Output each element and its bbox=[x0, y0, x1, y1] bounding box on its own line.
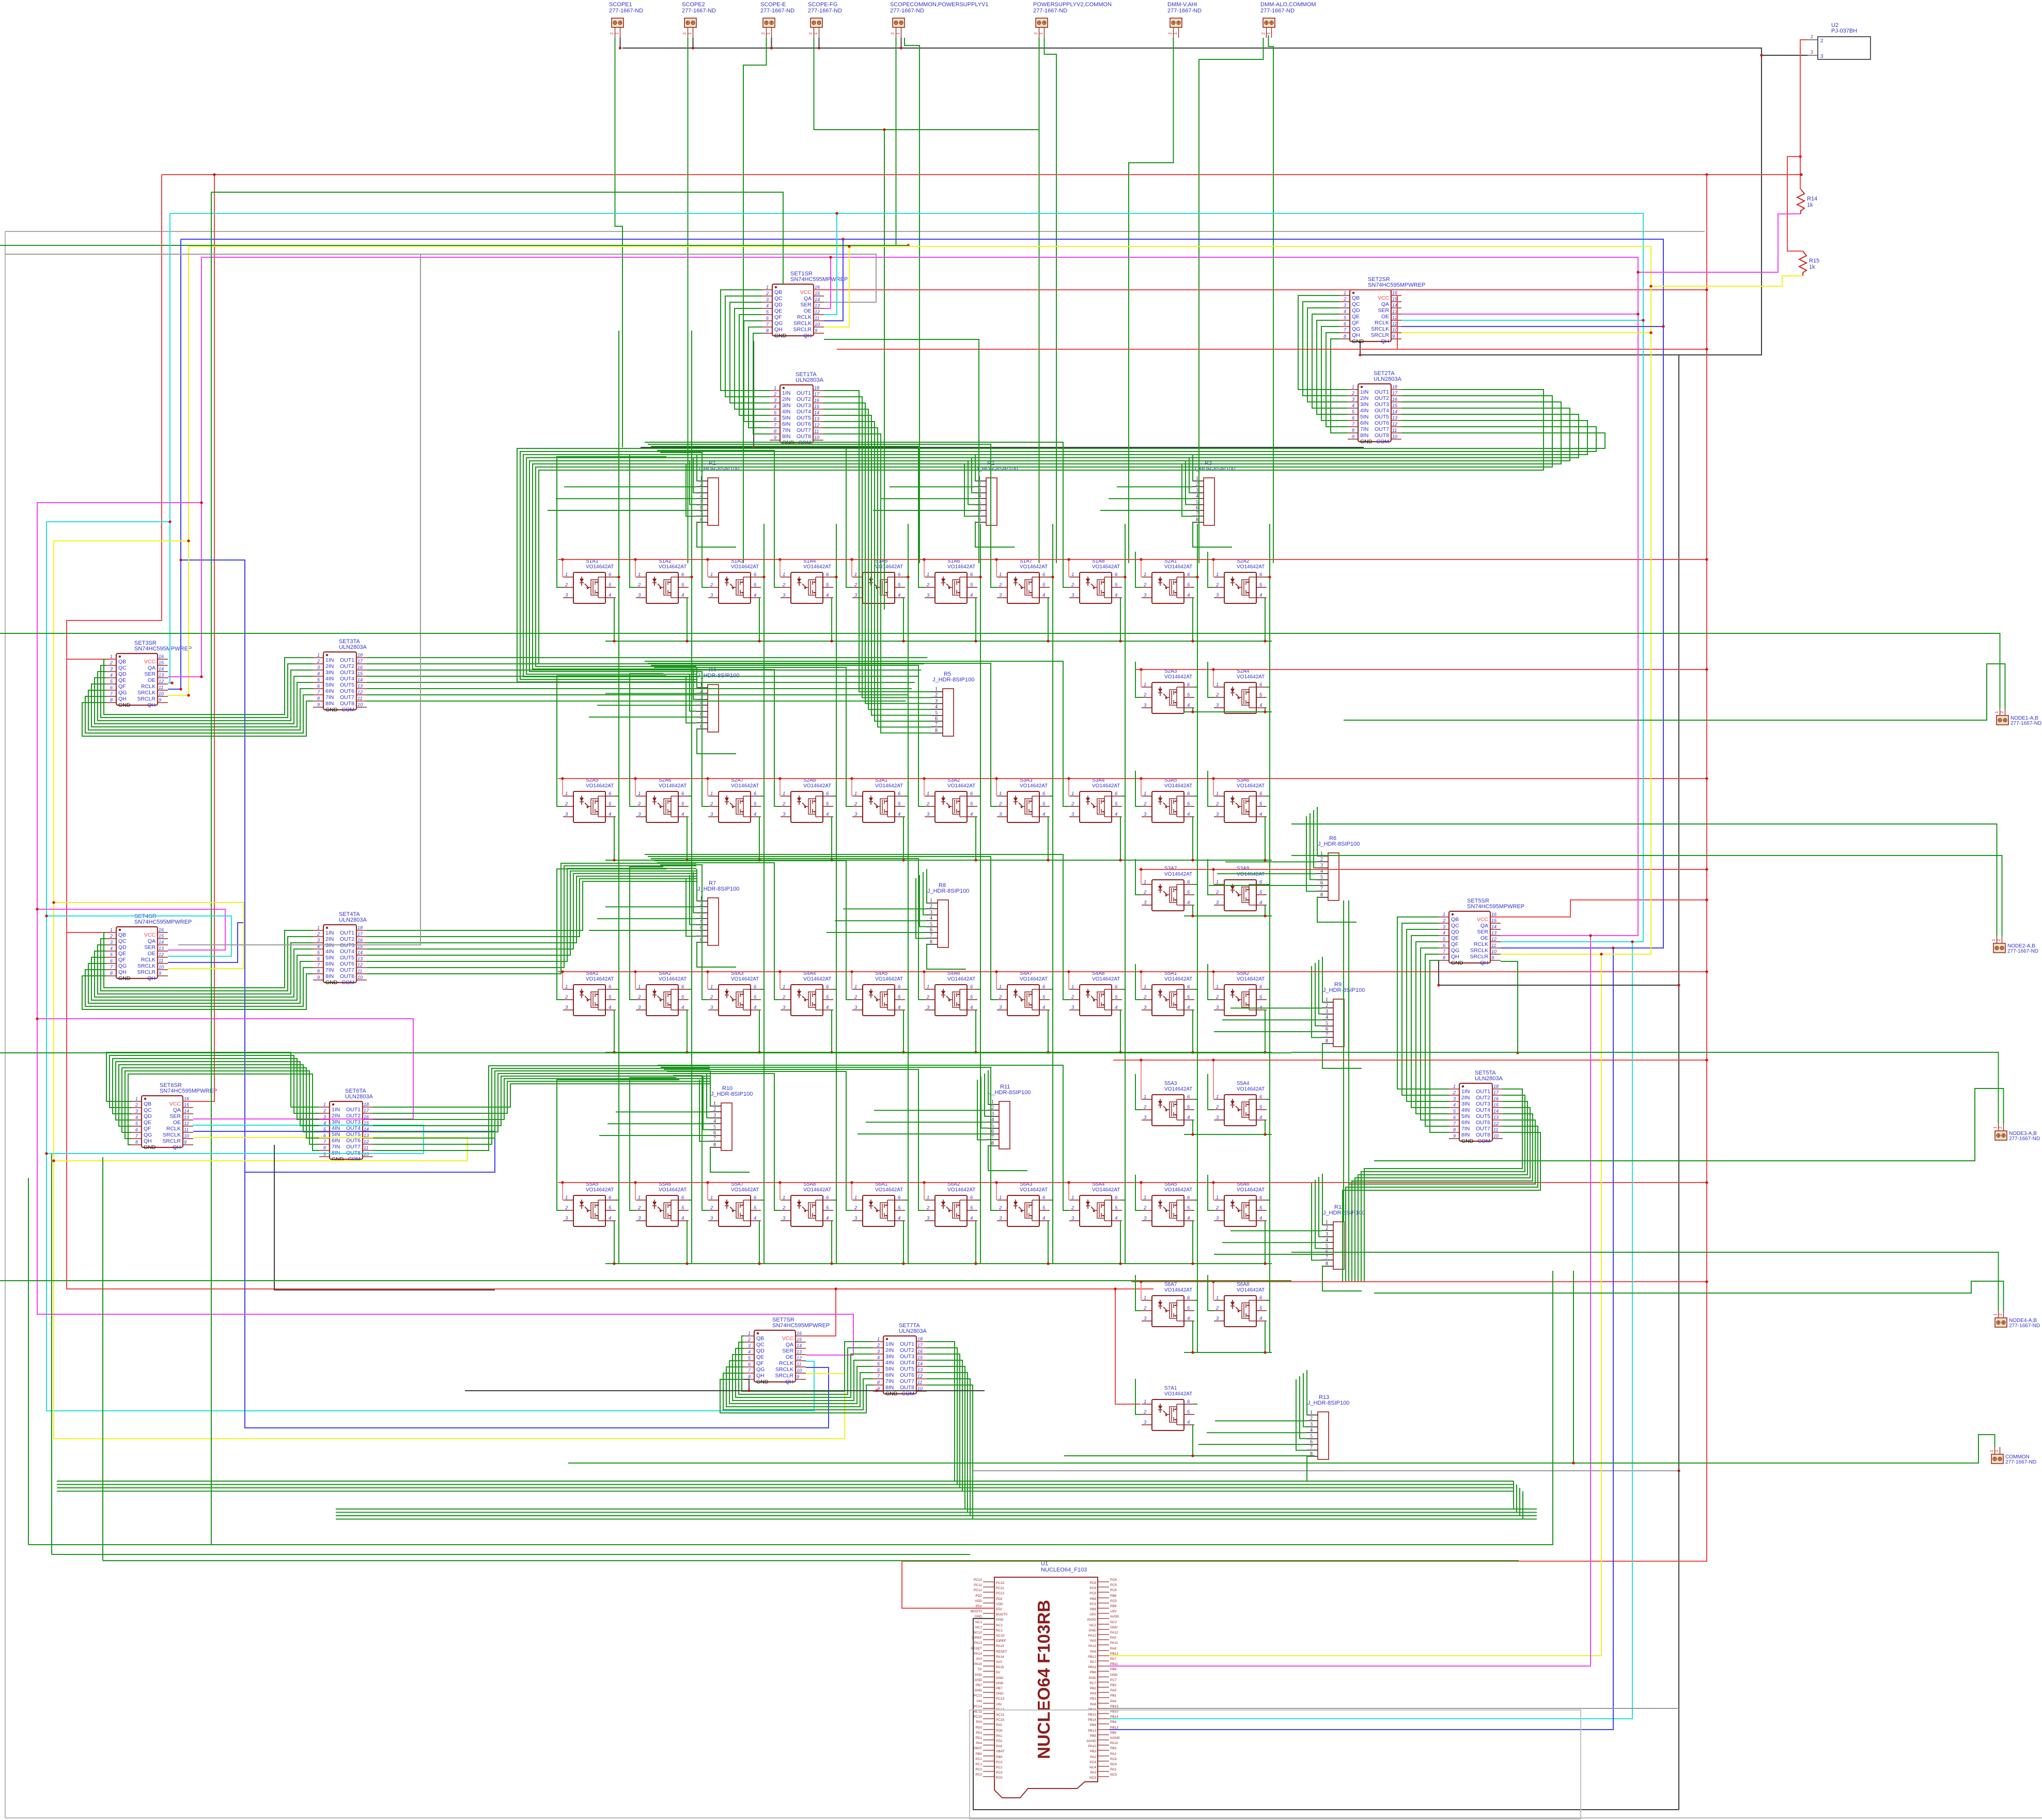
svg-text:AGND: AGND bbox=[1110, 1736, 1120, 1740]
svg-text:16: 16 bbox=[917, 1349, 923, 1354]
svg-text:6: 6 bbox=[754, 572, 757, 578]
wire S1A2 pin1 to VCC bus bbox=[635, 559, 636, 577]
wire SET6SR VCC loop bbox=[183, 175, 214, 1101]
svg-text:QA: QA bbox=[804, 295, 812, 302]
svg-text:6: 6 bbox=[898, 984, 901, 990]
svg-text:11: 11 bbox=[797, 1362, 801, 1367]
svg-text:5: 5 bbox=[1115, 582, 1118, 588]
wire R10 wires pin2 bbox=[616, 1111, 710, 1112]
svg-text:6: 6 bbox=[135, 1127, 138, 1132]
wire R1 wires pin4 bbox=[556, 498, 696, 499]
svg-text:1: 1 bbox=[710, 984, 713, 990]
svg-text:5: 5 bbox=[991, 1123, 994, 1129]
svg-text:2: 2 bbox=[1196, 481, 1198, 487]
svg-text:PB3: PB3 bbox=[1110, 1747, 1117, 1750]
wire VCC row bus y1083 bbox=[558, 559, 1707, 560]
svg-text:VO14642AT: VO14642AT bbox=[1164, 1391, 1192, 1397]
svg-text:GND: GND bbox=[756, 1379, 769, 1385]
svg-text:VO14642AT: VO14642AT bbox=[947, 783, 975, 789]
svg-text:18: 18 bbox=[357, 652, 363, 658]
svg-text:2: 2 bbox=[710, 1205, 713, 1211]
svg-text:1: 1 bbox=[1216, 572, 1219, 578]
wire SRCLR left bus yellow bbox=[54, 541, 845, 1439]
svg-text:NC10: NC10 bbox=[996, 1634, 1005, 1638]
svg-text:17: 17 bbox=[1493, 1090, 1499, 1095]
svg-text:1: 1 bbox=[783, 984, 785, 990]
svg-text:6: 6 bbox=[1187, 984, 1190, 990]
svg-text:GND: GND bbox=[1461, 1138, 1474, 1144]
junction SRCLR bbox=[1600, 953, 1602, 955]
svg-text:15: 15 bbox=[797, 1337, 802, 1342]
wire R10 wires pin7 bbox=[699, 1080, 710, 1141]
svg-text:2: 2 bbox=[637, 801, 641, 807]
wire bus lower2 line4 bbox=[336, 1519, 1537, 1520]
wire S4A7 pin1 to VCC bus bbox=[996, 972, 997, 989]
svg-text:1IN: 1IN bbox=[885, 1341, 894, 1347]
svg-text:QH: QH bbox=[173, 1144, 181, 1150]
wire R3 wires pin3 bbox=[1189, 458, 1192, 493]
wire R3 wires pin6 bbox=[1100, 510, 1192, 511]
svg-text:6: 6 bbox=[1187, 682, 1190, 688]
svg-text:3: 3 bbox=[783, 593, 786, 598]
wire R9 wires pin4 bbox=[1222, 1019, 1322, 1020]
wire SET4SR to SET4TA bit 6 bbox=[88, 961, 313, 1003]
svg-text:1: 1 bbox=[991, 1099, 994, 1105]
solid-state relay S1A7 bbox=[997, 558, 1050, 603]
svg-text:2: 2 bbox=[637, 1205, 641, 1211]
svg-text:3: 3 bbox=[1071, 1216, 1074, 1221]
svg-text:OUT5: OUT5 bbox=[340, 682, 354, 688]
svg-text:VO14642AT: VO14642AT bbox=[803, 564, 831, 570]
svg-text:2: 2 bbox=[935, 692, 938, 698]
svg-text:1: 1 bbox=[927, 1195, 929, 1201]
solid-state relay S3A7 bbox=[1142, 866, 1194, 911]
svg-text:4: 4 bbox=[826, 1216, 829, 1221]
svg-text:VDD: VDD bbox=[975, 1599, 982, 1603]
svg-text:8: 8 bbox=[1326, 1038, 1328, 1044]
svg-text:3: 3 bbox=[710, 812, 713, 817]
svg-text:PB10: PB10 bbox=[1088, 1713, 1096, 1717]
wire S4A1 pin1 to VCC bus bbox=[562, 972, 563, 989]
svg-text:NC11: NC11 bbox=[996, 1713, 1005, 1717]
resistor network R7 bbox=[696, 880, 739, 945]
svg-text:PB8: PB8 bbox=[1110, 1594, 1117, 1598]
svg-text:5: 5 bbox=[1259, 582, 1262, 588]
wire SET4TA out2 bbox=[367, 879, 696, 937]
wire SET5TA out1 bbox=[1364, 1089, 1522, 1281]
svg-text:PB0: PB0 bbox=[996, 1755, 1003, 1759]
solid-state relay S5A4 bbox=[1214, 1081, 1267, 1126]
wire S5A5 pin2 drive bbox=[557, 1080, 679, 1210]
wire SET3SR VCC stub bbox=[67, 659, 116, 660]
wire S7A1 pin6 stub bbox=[1194, 1404, 1197, 1405]
svg-text:2: 2 bbox=[713, 1107, 716, 1112]
svg-text:5: 5 bbox=[1187, 994, 1190, 1000]
svg-text:SER: SER bbox=[1477, 929, 1488, 935]
svg-text:PB4: PB4 bbox=[1090, 1723, 1097, 1727]
svg-text:6: 6 bbox=[970, 572, 973, 578]
wire S3A7 pin4 to return bus bbox=[1192, 905, 1193, 916]
wire S3A2 pin6 stub bbox=[977, 796, 980, 797]
svg-text:OUT7: OUT7 bbox=[346, 1144, 361, 1150]
svg-text:5: 5 bbox=[754, 801, 757, 807]
svg-text:11: 11 bbox=[159, 958, 163, 963]
svg-text:VCC: VCC bbox=[1378, 295, 1390, 301]
svg-text:S6A8: S6A8 bbox=[1237, 1282, 1250, 1287]
svg-text:15: 15 bbox=[1491, 918, 1497, 923]
wire SET4TA out5 bbox=[367, 871, 696, 955]
svg-text:2IN: 2IN bbox=[782, 396, 790, 402]
svg-text:6: 6 bbox=[317, 683, 320, 689]
wire return bus y1773 bbox=[1184, 915, 1272, 916]
svg-text:OUT8: OUT8 bbox=[900, 1385, 914, 1391]
svg-text:1: 1 bbox=[1144, 1094, 1146, 1100]
svg-text:PA9: PA9 bbox=[1090, 1692, 1096, 1695]
terminal block DMM-ALO,COMMOM bbox=[1260, 2, 1316, 38]
svg-text:17: 17 bbox=[357, 931, 363, 937]
wire SET7TA out4 bbox=[927, 1360, 962, 1491]
svg-text:2: 2 bbox=[610, 32, 614, 35]
svg-text:2: 2 bbox=[135, 1102, 138, 1108]
terminal block COMMON bbox=[1989, 1447, 2036, 1465]
wire SET5SR to SET5TA bit 2 bbox=[1402, 923, 1449, 1095]
wire S2A2 pin2 drive bbox=[1208, 552, 1214, 587]
svg-text:6: 6 bbox=[1042, 572, 1046, 578]
wire SRCLK net loop blue lower bbox=[1109, 948, 1613, 1730]
svg-text:1: 1 bbox=[766, 32, 771, 35]
svg-text:3IN: 3IN bbox=[325, 670, 334, 676]
svg-text:PD1: PD1 bbox=[996, 1739, 1003, 1743]
svg-text:3: 3 bbox=[999, 1216, 1002, 1221]
svg-text:5: 5 bbox=[970, 1205, 973, 1211]
svg-text:5: 5 bbox=[609, 801, 612, 807]
svg-text:4: 4 bbox=[774, 404, 776, 409]
wire S1A1 pin6 stub bbox=[616, 577, 619, 578]
svg-text:8: 8 bbox=[135, 1140, 138, 1145]
svg-text:10: 10 bbox=[797, 1368, 802, 1373]
svg-text:1: 1 bbox=[1144, 879, 1146, 885]
wire R8 wires pin2 bbox=[843, 908, 926, 909]
svg-text:SCOPE1: SCOPE1 bbox=[609, 2, 632, 8]
wire VCC row bus y2052 bbox=[1113, 1060, 1707, 1061]
svg-text:14: 14 bbox=[797, 1343, 802, 1348]
svg-text:PD2: PD2 bbox=[996, 1597, 1003, 1601]
svg-text:11: 11 bbox=[364, 1145, 368, 1150]
svg-text:6: 6 bbox=[681, 572, 684, 578]
svg-text:SN74HC595MPWREP: SN74HC595MPWREP bbox=[1368, 282, 1425, 288]
svg-text:2: 2 bbox=[1143, 994, 1147, 1000]
wire SET2TA out5 bbox=[526, 414, 1579, 674]
wire SCOPE1 pin2 down bbox=[615, 38, 623, 447]
wire R14 bottom to OE net bbox=[1638, 214, 1801, 272]
svg-text:2: 2 bbox=[1071, 801, 1074, 807]
wire R10 wires pin8 bbox=[710, 1147, 750, 1172]
svg-text:PC7: PC7 bbox=[1089, 1682, 1096, 1685]
svg-text:OUT6: OUT6 bbox=[346, 1138, 361, 1144]
shift register SET3SR bbox=[106, 640, 192, 708]
svg-text:NC2: NC2 bbox=[1110, 1621, 1117, 1624]
wire R9 wires pin2 bbox=[1230, 1007, 1322, 1008]
svg-text:6: 6 bbox=[1259, 682, 1262, 688]
svg-text:9: 9 bbox=[1352, 434, 1354, 439]
wire S4A7 pin6 stub bbox=[1050, 989, 1053, 990]
wire R7 wires pin4 bbox=[597, 918, 696, 919]
wire GND vertical right bbox=[1678, 1471, 1679, 1810]
wire R1 wires pin3 bbox=[693, 458, 696, 493]
wire SET1SR to SET1TA bit 8 bbox=[753, 333, 770, 434]
wire S2A7 pin4 to return bus bbox=[759, 817, 760, 860]
wire R7 wires pin6 bbox=[589, 930, 696, 931]
svg-text:1: 1 bbox=[317, 925, 320, 930]
svg-text:OUT4: OUT4 bbox=[1375, 408, 1389, 414]
solid-state relay S1A3 bbox=[708, 558, 761, 603]
svg-text:5: 5 bbox=[609, 582, 612, 588]
wire SCOPE-E pin1 to GND bus bbox=[771, 38, 772, 48]
svg-text:PB13: PB13 bbox=[1110, 1726, 1118, 1730]
svg-text:6: 6 bbox=[1326, 1026, 1328, 1032]
svg-text:1: 1 bbox=[710, 1195, 713, 1201]
svg-text:QD: QD bbox=[1451, 929, 1459, 935]
gray net wire y448 bbox=[5, 231, 1705, 232]
wire S6A8 pin2 drive bbox=[1208, 1275, 1214, 1311]
wire S2A6 pin4 to return bus bbox=[687, 817, 688, 860]
svg-text:6: 6 bbox=[1187, 879, 1190, 885]
svg-text:E5V: E5V bbox=[976, 1605, 983, 1608]
wire SET1SR GND down bbox=[753, 341, 754, 447]
wire left green x55 bbox=[28, 1178, 29, 1545]
svg-text:1: 1 bbox=[877, 1336, 880, 1342]
svg-text:PA12: PA12 bbox=[1088, 1634, 1097, 1638]
wire S2A1 pin6 stub bbox=[1194, 577, 1197, 578]
wire S4A1 pin6 stub bbox=[616, 989, 619, 990]
wire U1 PB15 gray bbox=[1109, 1708, 1679, 1709]
svg-text:2: 2 bbox=[1215, 801, 1219, 807]
svg-text:2: 2 bbox=[761, 32, 766, 35]
svg-text:PC11: PC11 bbox=[996, 1586, 1004, 1590]
wire S4A3 pin2 drive bbox=[660, 865, 708, 1000]
svg-text:12: 12 bbox=[797, 1356, 802, 1361]
svg-text:1IN: 1IN bbox=[325, 657, 334, 663]
svg-text:5: 5 bbox=[1344, 315, 1347, 320]
wire S2A5 pin2 drive bbox=[557, 676, 666, 806]
wire return bus y1378 bbox=[1184, 711, 1272, 712]
wire S1A2 pin6 stub bbox=[689, 577, 692, 578]
svg-text:3: 3 bbox=[317, 665, 320, 670]
svg-text:QG: QG bbox=[118, 690, 127, 696]
svg-text:VO14642AT: VO14642AT bbox=[1020, 1187, 1048, 1193]
svg-text:2: 2 bbox=[1143, 1305, 1147, 1311]
wire SET6 GND path bbox=[274, 1145, 495, 1290]
svg-text:4: 4 bbox=[1187, 593, 1190, 598]
svg-text:PA2: PA2 bbox=[1110, 1752, 1116, 1756]
svg-text:6: 6 bbox=[754, 1195, 757, 1201]
svg-text:PD0: PD0 bbox=[996, 1729, 1003, 1733]
svg-text:5: 5 bbox=[826, 582, 829, 588]
solid-state relay S4A8 bbox=[1069, 971, 1122, 1016]
svg-text:2: 2 bbox=[877, 1343, 880, 1348]
svg-text:VO14642AT: VO14642AT bbox=[1237, 564, 1265, 570]
svg-text:2: 2 bbox=[565, 994, 568, 1000]
svg-text:3: 3 bbox=[927, 593, 930, 598]
svg-text:3: 3 bbox=[110, 666, 113, 672]
svg-text:PB2: PB2 bbox=[1090, 1687, 1097, 1690]
svg-text:QE: QE bbox=[144, 1119, 151, 1126]
wire SET2SR to SET2TA bit 8 bbox=[1331, 339, 1348, 433]
svg-text:QF: QF bbox=[774, 314, 782, 320]
wire SET7SR to SET7TA bit 2 bbox=[739, 1342, 873, 1394]
svg-text:6: 6 bbox=[1187, 1399, 1190, 1405]
svg-text:SCOPE2: SCOPE2 bbox=[682, 2, 705, 8]
svg-text:2: 2 bbox=[854, 1205, 858, 1211]
svg-text:7: 7 bbox=[323, 1139, 326, 1144]
svg-text:3: 3 bbox=[1216, 812, 1219, 817]
svg-text:2: 2 bbox=[565, 1205, 568, 1211]
svg-text:VO14642AT: VO14642AT bbox=[875, 783, 903, 789]
svg-text:S5A3: S5A3 bbox=[1164, 1081, 1177, 1086]
svg-text:3: 3 bbox=[783, 812, 786, 817]
svg-text:4: 4 bbox=[1115, 1005, 1117, 1010]
wire S2A4 pin1 to VCC bus bbox=[1213, 670, 1214, 687]
svg-text:8: 8 bbox=[1453, 1127, 1456, 1132]
svg-text:QB: QB bbox=[756, 1335, 764, 1342]
svg-text:5: 5 bbox=[1042, 801, 1046, 807]
wire S1A7 pin6 stub bbox=[1050, 577, 1053, 578]
svg-text:277-1667-ND: 277-1667-ND bbox=[1260, 8, 1295, 14]
wire S6A3 pin2 drive bbox=[661, 1067, 997, 1210]
wire S6A7 pin1 to VCC bus bbox=[1141, 1282, 1142, 1300]
shift register SET7SR bbox=[744, 1317, 830, 1385]
wire S2A4 pin2 drive bbox=[1208, 662, 1214, 697]
wire SET3TA out7 bbox=[367, 694, 909, 695]
svg-text:SRCLR: SRCLR bbox=[1470, 954, 1488, 960]
wire S5A1 pin4 to return bus bbox=[1192, 1010, 1193, 1052]
svg-text:VO14642AT: VO14642AT bbox=[1164, 564, 1192, 570]
svg-text:1: 1 bbox=[783, 572, 785, 578]
wire S1A3 pin6 stub bbox=[761, 577, 764, 578]
svg-text:6: 6 bbox=[1042, 984, 1046, 990]
svg-text:6: 6 bbox=[609, 572, 612, 578]
svg-text:OE: OE bbox=[804, 308, 812, 314]
svg-text:QH: QH bbox=[1480, 960, 1488, 966]
svg-text:6: 6 bbox=[970, 984, 973, 990]
svg-text:12: 12 bbox=[815, 309, 820, 315]
svg-text:PB2: PB2 bbox=[1110, 1684, 1117, 1687]
svg-text:4: 4 bbox=[1187, 1316, 1190, 1321]
svg-text:2: 2 bbox=[1326, 1003, 1328, 1008]
svg-text:13: 13 bbox=[1392, 309, 1397, 314]
svg-text:17: 17 bbox=[1392, 391, 1398, 396]
svg-text:7IN: 7IN bbox=[1360, 426, 1368, 432]
svg-text:2: 2 bbox=[999, 994, 1002, 1000]
wire VCC row bus y1881 bbox=[558, 971, 1707, 972]
svg-text:11: 11 bbox=[159, 685, 163, 690]
wire S2A1 pin2 drive bbox=[1135, 552, 1142, 587]
svg-text:9: 9 bbox=[815, 328, 817, 333]
svg-text:PC5: PC5 bbox=[1110, 1599, 1117, 1603]
svg-text:6: 6 bbox=[898, 572, 901, 578]
svg-text:NC5: NC5 bbox=[1089, 1776, 1096, 1780]
wire S3A7 pin6 stub bbox=[1194, 884, 1197, 885]
wire S7A1 pin1 to VCC bus bbox=[1141, 1404, 1142, 1405]
solid-state relay S5A6 bbox=[636, 1181, 689, 1226]
svg-text:1: 1 bbox=[927, 572, 929, 578]
svg-text:DMM-ALO,COMMOM: DMM-ALO,COMMOM bbox=[1260, 2, 1316, 8]
terminal block SCOPE-FG bbox=[808, 2, 842, 38]
wire S3A6 pin6 stub bbox=[1267, 796, 1270, 797]
svg-text:GND: GND bbox=[996, 1692, 1004, 1695]
svg-text:3: 3 bbox=[1144, 812, 1147, 817]
svg-text:6: 6 bbox=[754, 984, 757, 990]
svg-text:PB9: PB9 bbox=[1110, 1605, 1117, 1608]
svg-text:1: 1 bbox=[1144, 791, 1146, 797]
svg-text:PC15: PC15 bbox=[974, 1715, 983, 1719]
svg-text:VO14642AT: VO14642AT bbox=[1164, 976, 1192, 982]
svg-text:5: 5 bbox=[1187, 1409, 1190, 1415]
svg-text:2: 2 bbox=[2000, 711, 2004, 713]
svg-text:OUT7: OUT7 bbox=[1375, 426, 1389, 432]
svg-text:4: 4 bbox=[826, 593, 829, 598]
wire RCLK vertical x329 bbox=[169, 213, 170, 683]
wire SET2SR to SET2TA bit 5 bbox=[1317, 320, 1348, 414]
wire return bus y2196 bbox=[1184, 1134, 1272, 1135]
svg-text:8: 8 bbox=[935, 728, 938, 734]
svg-text:4: 4 bbox=[1259, 900, 1262, 906]
wire bus lower line2 bbox=[57, 1484, 1514, 1485]
svg-text:QE: QE bbox=[118, 951, 126, 957]
svg-text:2: 2 bbox=[782, 1205, 786, 1211]
svg-text:GND: GND bbox=[996, 1618, 1004, 1622]
svg-text:2: 2 bbox=[1998, 1313, 2003, 1316]
svg-text:9: 9 bbox=[317, 702, 320, 707]
wire R3 wires pin4 bbox=[1109, 498, 1192, 499]
wire VCC left bus to row S6A7 bbox=[67, 175, 1154, 1289]
svg-text:J_HDR-8SIP100: J_HDR-8SIP100 bbox=[711, 1091, 753, 1097]
wire S6A4 pin2 drive bbox=[658, 1065, 1069, 1210]
svg-text:5: 5 bbox=[317, 677, 320, 682]
wire S2A5 pin6 stub bbox=[616, 796, 619, 797]
svg-text:VIN: VIN bbox=[996, 1703, 1002, 1706]
svg-text:13: 13 bbox=[814, 416, 819, 422]
svg-text:4: 4 bbox=[681, 812, 684, 817]
svg-text:5: 5 bbox=[935, 710, 938, 716]
svg-text:VO14642AT: VO14642AT bbox=[1164, 1086, 1192, 1092]
svg-text:2: 2 bbox=[926, 1205, 930, 1211]
svg-text:SER: SER bbox=[782, 1348, 793, 1354]
svg-text:5: 5 bbox=[826, 801, 829, 807]
svg-text:13: 13 bbox=[815, 303, 820, 308]
svg-text:QH: QH bbox=[756, 1373, 765, 1379]
svg-text:6IN: 6IN bbox=[332, 1138, 340, 1144]
svg-text:VO14642AT: VO14642AT bbox=[1092, 976, 1120, 982]
svg-text:4: 4 bbox=[826, 812, 829, 817]
wire S6A1 pin6 stub bbox=[905, 1200, 908, 1201]
svg-text:RCLK: RCLK bbox=[166, 1126, 181, 1132]
wire S4A8 pin4 to return bus bbox=[1120, 1010, 1121, 1052]
svg-text:2: 2 bbox=[1143, 582, 1147, 588]
wire SET1TA out2 bbox=[823, 397, 931, 697]
svg-text:3: 3 bbox=[565, 1216, 568, 1221]
svg-text:1: 1 bbox=[854, 791, 857, 797]
svg-text:5: 5 bbox=[1259, 994, 1262, 1000]
wire S2A4 pin6 stub bbox=[1267, 687, 1270, 688]
svg-text:SCOPECOMMON,POWERSUPPLYV1: SCOPECOMMON,POWERSUPPLYV1 bbox=[890, 2, 989, 8]
solid-state relay S6A3 bbox=[997, 1181, 1050, 1226]
wire R4 wires pin8 bbox=[696, 729, 736, 754]
wire S4A5 pin2 drive bbox=[654, 861, 852, 1000]
wire S1A8 pin4 to return bus bbox=[1120, 598, 1121, 641]
svg-text:PB14: PB14 bbox=[1110, 1715, 1118, 1719]
wire S5A6 pin1 to VCC bus bbox=[635, 1183, 636, 1200]
